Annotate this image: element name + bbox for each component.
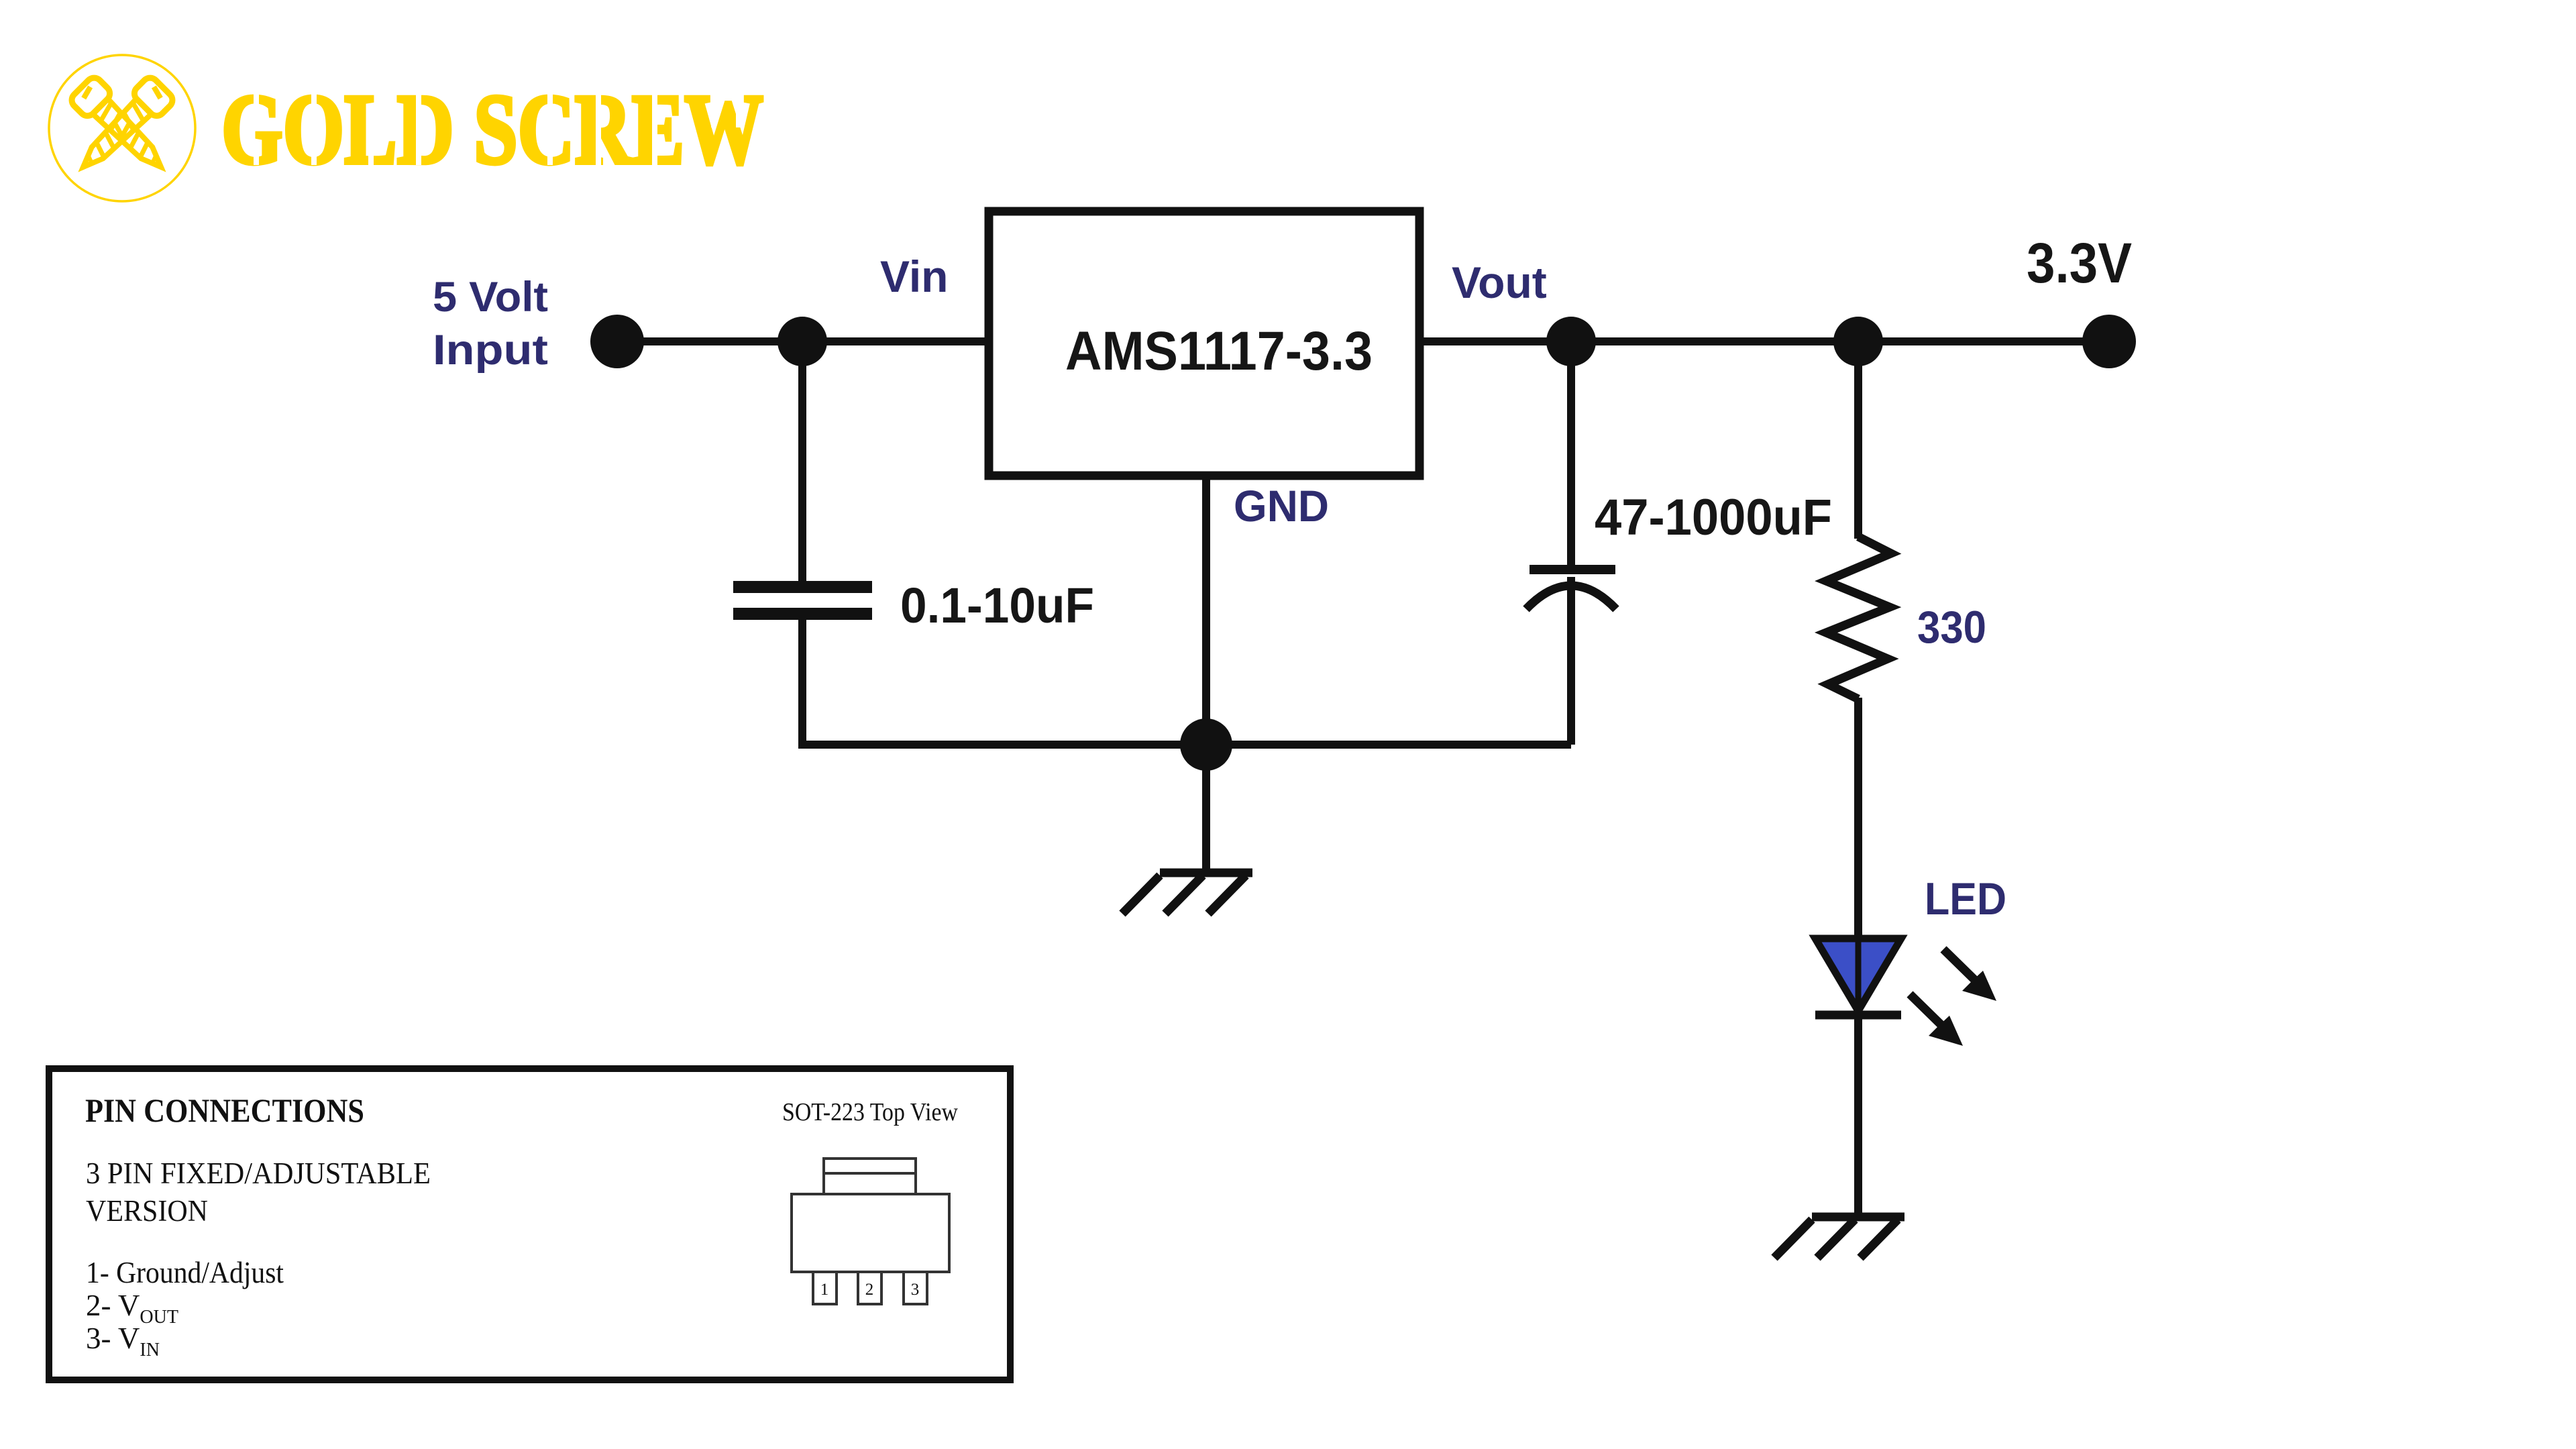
wire R1 bottom lead	[1854, 698, 1862, 938]
capacitor C2 top plate	[1529, 565, 1615, 574]
wire R1 top lead	[1854, 341, 1862, 539]
logo circle	[49, 55, 195, 201]
regulator U1 AMS1117-3.3 box	[989, 211, 1419, 476]
svg-text:1: 1	[820, 1281, 829, 1299]
wire GND stub	[1202, 476, 1210, 745]
node ground junction	[1180, 718, 1232, 771]
SOT-223 package body	[792, 1194, 949, 1272]
wire C1 bottom lead	[798, 617, 806, 749]
SOT-223 package tab	[824, 1159, 916, 1194]
svg-text:3 PIN FIXED/ADJUSTABLE: 3 PIN FIXED/ADJUSTABLE	[86, 1157, 431, 1190]
logo crossed screws	[68, 74, 176, 180]
svg-text:GND: GND	[1234, 481, 1329, 531]
node resistor junction	[1833, 317, 1883, 366]
svg-text:Vin: Vin	[880, 252, 948, 301]
svg-text:1- Ground/Adjust: 1- Ground/Adjust	[86, 1256, 284, 1289]
svg-text:0.1-10uF: 0.1-10uF	[900, 578, 1094, 633]
svg-text:3: 3	[911, 1281, 920, 1299]
wire bottom rail	[798, 741, 1571, 749]
logo wordmark GOLD SCREW	[221, 74, 763, 185]
wire C1 top lead	[798, 341, 806, 584]
screw left (head top-left)	[68, 74, 174, 180]
LED light arrow 1	[1943, 949, 1996, 1001]
ground symbol 1	[1122, 873, 1252, 914]
SOT-223 pin 3	[904, 1272, 927, 1304]
node Vout junction	[1546, 317, 1596, 366]
wire C2 top lead	[1567, 341, 1575, 567]
svg-text:PIN CONNECTIONS: PIN CONNECTIONS	[85, 1091, 364, 1129]
ground symbol 2	[1774, 1217, 1904, 1258]
resistor R1 zigzag	[1826, 537, 1891, 699]
node output terminal	[2082, 315, 2136, 368]
wire top-right	[1419, 337, 2109, 345]
svg-text:2: 2	[865, 1281, 874, 1299]
svg-text:3.3V: 3.3V	[2027, 231, 2132, 294]
wire ground lead 1	[1202, 745, 1210, 873]
svg-text:AMS1117-3.3: AMS1117-3.3	[1065, 321, 1373, 382]
node input terminal	[590, 315, 644, 368]
LED D1 triangle	[1815, 938, 1901, 1011]
svg-text:Input: Input	[433, 327, 548, 374]
screw right (head top-right)	[70, 74, 176, 180]
svg-text:Vout: Vout	[1452, 258, 1547, 307]
svg-text:5 Volt: 5 Volt	[433, 274, 548, 321]
svg-text:330: 330	[1917, 602, 1986, 653]
wire C2 bottom lead	[1567, 577, 1575, 745]
capacitor C2 bottom plate arc	[1526, 586, 1616, 609]
capacitor C1 plates	[733, 581, 872, 593]
wire top-left	[617, 337, 989, 345]
LED D1 wire through triangle	[1856, 938, 1862, 1010]
LED D1 cathode bar	[1815, 1011, 1901, 1020]
SOT-223 pin 2	[858, 1272, 881, 1304]
svg-text:LED: LED	[1925, 873, 2006, 924]
svg-text:SOT-223 Top View: SOT-223 Top View	[782, 1098, 958, 1126]
svg-text:GOLD SCREW: GOLD SCREW	[221, 74, 763, 185]
SOT-223 tab divider	[824, 1172, 916, 1175]
stencil slits	[254, 94, 741, 165]
wire LED bottom lead	[1854, 1015, 1862, 1217]
svg-text:47-1000uF: 47-1000uF	[1595, 489, 1832, 546]
node Vin junction	[777, 317, 827, 366]
LED light arrow 2	[1910, 994, 1963, 1046]
pin connections info box	[49, 1069, 1010, 1380]
svg-text:VERSION: VERSION	[86, 1194, 208, 1228]
SOT-223 pin 1	[813, 1272, 837, 1304]
